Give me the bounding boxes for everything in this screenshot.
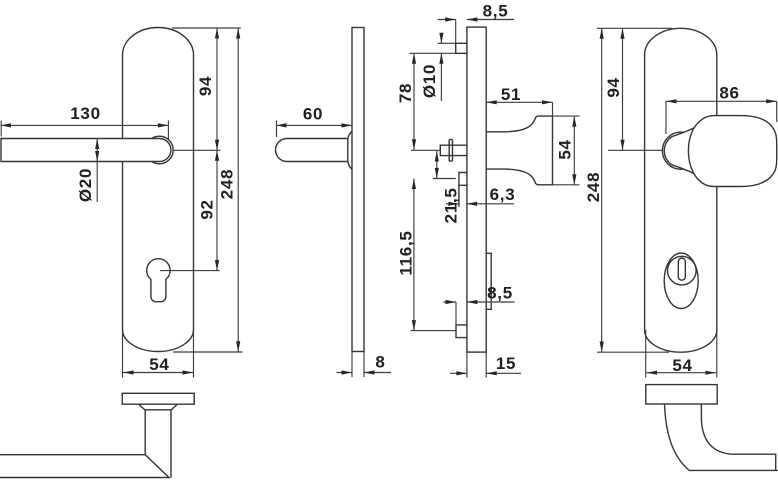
dim O10: extension lines xyxy=(410,43,456,53)
svg-text:94: 94 xyxy=(196,76,215,96)
dim 54 v1: dimension line xyxy=(123,372,193,374)
dim 8,5 top: extension line xyxy=(455,20,457,44)
svg-text:21,5: 21,5 xyxy=(441,187,460,223)
dim 92: dimension line xyxy=(216,150,218,270)
dim 8: extension lines xyxy=(352,352,364,378)
dim 248 v1: dimension line xyxy=(237,28,239,352)
dim 8,5 bottom: extension line xyxy=(455,302,457,325)
knob neck and grip (bottom right) xyxy=(665,404,778,470)
svg-text:54: 54 xyxy=(556,139,575,159)
svg-text:Ø10: Ø10 xyxy=(420,64,439,98)
lever grip side view (view 2) xyxy=(276,139,349,162)
svg-text:54: 54 xyxy=(149,355,169,374)
cylinder stub (view 3) xyxy=(459,173,467,207)
euro profile keyhole (view 1) xyxy=(147,259,170,302)
svg-text:6,3: 6,3 xyxy=(490,185,516,204)
dim 94+248 v1: top extension line xyxy=(172,27,241,29)
dim 60: extension line xyxy=(276,121,278,138)
lever rose flare (view 2) xyxy=(348,131,352,169)
dim 248 v4: dimension line xyxy=(601,28,603,352)
lever rose circle (view 1) xyxy=(146,136,174,164)
dim 54 v1: extension lines xyxy=(123,332,194,378)
dim 8: dimension line xyxy=(337,372,392,374)
dim 94+248 v4: top extension line xyxy=(597,27,672,29)
svg-text:86: 86 xyxy=(719,83,739,102)
dim 21,5: extension lines xyxy=(433,178,456,180)
backplate strip (view 3) xyxy=(467,27,486,352)
dim 8,5 bottom: dimension line xyxy=(444,301,515,303)
svg-text:51: 51 xyxy=(501,85,521,104)
dim 54 v3: extension lines xyxy=(553,116,580,185)
middle screw washer (view 3) xyxy=(449,140,452,162)
dim 248 v1: bottom extension line xyxy=(173,351,243,353)
top fixing screw stub (view 3) xyxy=(456,43,467,53)
svg-text:8,5: 8,5 xyxy=(487,283,513,302)
security rosette oval (view 4) xyxy=(664,253,698,308)
svg-text:60: 60 xyxy=(303,104,323,123)
dim O20: dimension line xyxy=(96,139,98,203)
dim 94 v1: dimension line xyxy=(216,28,218,150)
knob rose disc (bottom right) xyxy=(646,385,717,404)
dim 130: extension lines xyxy=(1,121,168,140)
dim 86: dimension line xyxy=(666,100,777,102)
dim 21,5: dimension line xyxy=(436,151,438,179)
svg-text:94: 94 xyxy=(604,77,623,97)
dim 116,5: extension line at bottom xyxy=(411,330,457,332)
svg-text:130: 130 xyxy=(70,104,100,123)
dim 116,5: dimension line xyxy=(413,179,415,331)
dim 94 v4: dimension line xyxy=(622,28,624,150)
svg-text:248: 248 xyxy=(584,172,603,202)
arrowheads view 2 xyxy=(276,123,287,127)
dim 92: extension line at keyhole axis xyxy=(160,270,220,272)
dim 94 v4: extension line at knob axis xyxy=(608,149,662,151)
svg-text:Ø20: Ø20 xyxy=(76,168,95,202)
dim 248 v4: bottom extension line xyxy=(597,351,669,353)
cylinder core circle (view 4) xyxy=(668,256,697,285)
dim 130: dimension line xyxy=(1,124,169,126)
knob grip egg (view 4) xyxy=(688,116,776,187)
svg-text:78: 78 xyxy=(396,83,415,103)
dim 54 v3: dimension line xyxy=(573,116,575,185)
dim 51: dimension line xyxy=(486,101,552,103)
lever stem (bottom left) xyxy=(145,410,171,478)
svg-text:8,5: 8,5 xyxy=(483,2,509,21)
svg-text:54: 54 xyxy=(672,356,692,375)
dim O10: arrow tails and leader xyxy=(440,33,442,101)
dim 78: dimension line xyxy=(413,53,415,150)
lever neck collar (bottom left) xyxy=(139,404,178,410)
knob neck (view 4) xyxy=(664,128,695,174)
dim 60: dimension line xyxy=(276,124,352,126)
knob side profile (view 3) xyxy=(486,116,552,185)
lever rose disc (bottom left) xyxy=(122,393,194,404)
arrowheads view 4 xyxy=(620,28,624,39)
arrowheads view 3 xyxy=(445,17,456,21)
dim 51: extension line xyxy=(552,102,554,116)
lever handle bar (view 1) xyxy=(1,139,171,162)
dim 15: dimension line xyxy=(450,372,521,374)
dim 8,5 top: dimension line xyxy=(438,19,514,21)
middle fixing screw (view 3) xyxy=(440,145,467,155)
svg-text:92: 92 xyxy=(197,199,216,219)
svg-text:15: 15 xyxy=(496,354,516,373)
svg-text:248: 248 xyxy=(217,169,236,199)
security rosette side bar (view 3) xyxy=(486,253,491,309)
backplate outline (view 4) xyxy=(645,28,717,352)
dim 94/92: extension line at lever axis xyxy=(174,149,221,151)
svg-text:8: 8 xyxy=(375,352,385,371)
lever neck joint line (view 2) xyxy=(347,139,349,162)
backplate outline (view 1) xyxy=(123,27,194,351)
cylinder slot (view 4) xyxy=(678,258,685,280)
knob rose circle (view 4) xyxy=(662,132,699,169)
lever arm (bottom left) xyxy=(0,455,170,479)
dim 54 v4: dimension line xyxy=(647,372,717,374)
dim 86: extension lines xyxy=(666,101,777,134)
dim 15: extension lines xyxy=(467,352,486,377)
bottom fixing screw stub (view 3) xyxy=(456,325,467,338)
dim 78: extension line at washer top xyxy=(411,149,440,151)
arrowheads view 1 xyxy=(1,123,12,127)
dim 6,3: dimension line xyxy=(446,203,514,205)
svg-text:116,5: 116,5 xyxy=(396,230,415,275)
backplate strip (view 2) xyxy=(352,28,364,352)
dim 54 v4: extension lines xyxy=(646,330,717,378)
